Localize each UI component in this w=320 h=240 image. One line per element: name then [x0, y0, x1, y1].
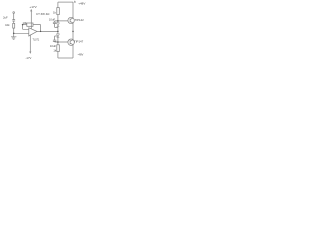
svg-text:TIP147: TIP147	[74, 39, 84, 43]
svg-text:1k: 1k	[53, 49, 57, 53]
svg-text:10k: 10k	[5, 23, 10, 27]
svg-text:-17V: -17V	[26, 56, 32, 60]
svg-text:+17V: +17V	[29, 5, 37, 9]
svg-text:TL071: TL071	[33, 38, 40, 41]
svg-text:10k: 10k	[23, 21, 28, 25]
svg-text:CT 3W 4Ω: CT 3W 4Ω	[36, 12, 50, 16]
svg-text:10uF: 10uF	[50, 44, 57, 48]
svg-text:2uF: 2uF	[3, 16, 8, 20]
svg-text:-48V: -48V	[78, 53, 84, 57]
svg-text:10uF: 10uF	[49, 17, 56, 21]
svg-text:+48V: +48V	[78, 2, 85, 6]
svg-text:TIP142: TIP142	[75, 18, 85, 22]
svg-text:1k: 1k	[53, 11, 57, 15]
